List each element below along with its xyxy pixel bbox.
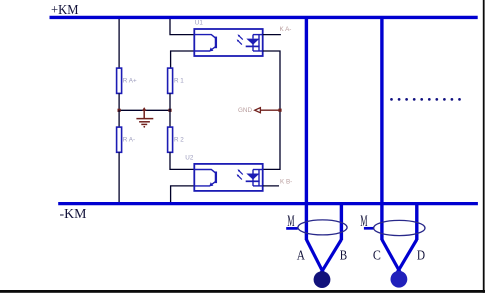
wire U1 collector from +KM bbox=[170, 19, 194, 35]
wire RA- to -KM bbox=[118, 152, 120, 202]
motor1 winding ellipse bbox=[298, 220, 347, 235]
wire R2 to U2 anode-side bbox=[170, 152, 194, 169]
resistor RA- bbox=[117, 127, 122, 152]
wire U2 emitter to -KM bbox=[171, 186, 195, 202]
wire U1 cathode down to U2 bbox=[263, 51, 280, 169]
resistor R1 bbox=[168, 68, 173, 93]
wire R1 to rail bbox=[169, 93, 171, 110]
resistor R2 bbox=[168, 127, 173, 152]
resistor RA+ bbox=[117, 68, 122, 93]
vertical bus 2 bbox=[380, 16, 383, 240]
junction GND tap bbox=[278, 109, 281, 112]
motor2 rotor dot bbox=[391, 271, 408, 288]
U2 body bbox=[194, 164, 262, 191]
optocoupler U2 bbox=[194, 164, 262, 191]
wire ground rail bbox=[119, 109, 170, 111]
svg-text:B: B bbox=[340, 248, 347, 263]
svg-text:U2: U2 bbox=[185, 155, 194, 162]
U2 LED bbox=[237, 169, 263, 186]
svg-text:GND: GND bbox=[238, 107, 252, 114]
motor1 lead stub bbox=[286, 227, 298, 230]
svg-text:R A+: R A+ bbox=[123, 78, 137, 85]
motor1 phase wire A bbox=[306, 240, 325, 277]
svg-text:K B-: K B- bbox=[280, 178, 292, 185]
motor2 winding ellipse bbox=[374, 220, 425, 235]
svg-text:-KM: -KM bbox=[60, 206, 87, 221]
ground bbox=[136, 107, 153, 128]
svg-text:R A-: R A- bbox=[123, 137, 135, 144]
window border bottom bbox=[0, 290, 485, 293]
svg-text:R 2: R 2 bbox=[174, 137, 184, 144]
vertical stub bus D bbox=[415, 202, 418, 240]
light arrows bbox=[239, 36, 243, 40]
svg-text:+KM: +KM bbox=[51, 2, 79, 17]
svg-text:C: C bbox=[373, 248, 381, 263]
wire rail to RA- bbox=[118, 110, 120, 127]
svg-text:R 1: R 1 bbox=[174, 78, 184, 85]
wire RA+ bottom bbox=[118, 93, 120, 110]
GND arrow tap bbox=[255, 108, 280, 113]
motor2 lead stub bbox=[364, 227, 374, 230]
motor1 rotor dot bbox=[314, 271, 331, 288]
-KM power bus bbox=[58, 202, 478, 205]
U1 phototransistor bbox=[194, 35, 216, 52]
wire rail to R2 bbox=[169, 110, 171, 127]
svg-text:D: D bbox=[417, 248, 425, 263]
light arrows bbox=[239, 171, 243, 175]
motor2 phase wire C bbox=[382, 240, 403, 277]
svg-text:A: A bbox=[297, 248, 306, 263]
U2 phototransistor bbox=[194, 170, 216, 187]
U1 body bbox=[194, 29, 262, 56]
window border right bbox=[483, 0, 485, 293]
+KM power bus bbox=[50, 16, 478, 19]
vertical bus 1 bbox=[305, 16, 308, 240]
motor2 phase wire D bbox=[395, 240, 417, 277]
junction left rail bbox=[118, 109, 121, 112]
wire RA+ top bbox=[118, 19, 120, 68]
wire net KB- bbox=[263, 185, 279, 187]
junction right rail bbox=[168, 109, 171, 112]
svg-text:U1: U1 bbox=[195, 20, 204, 27]
vertical stub bus B bbox=[340, 202, 343, 240]
optocoupler U1 bbox=[194, 29, 262, 56]
wire U1 emitter to R1 bbox=[171, 51, 195, 68]
U1 LED bbox=[237, 34, 263, 51]
motor1 phase wire B bbox=[319, 240, 342, 277]
svg-text:K A-: K A- bbox=[280, 26, 292, 33]
wire net KA- bbox=[263, 34, 281, 36]
dotted continuation bbox=[390, 98, 461, 101]
